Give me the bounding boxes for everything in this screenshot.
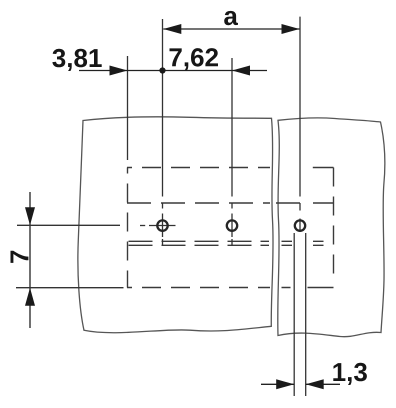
hole H1 bbox=[157, 220, 167, 230]
dimension 7 vertical line bbox=[29, 192, 31, 328]
dimension 1,3 line right bbox=[306, 383, 340, 385]
arrow 7 top bbox=[25, 207, 35, 225]
origin dot bbox=[159, 67, 165, 73]
arrow 7 bottom bbox=[25, 288, 35, 306]
dashed box right edge bbox=[333, 168, 335, 280]
dashed box left edge bbox=[127, 168, 129, 288]
dimension a arrow right bbox=[282, 24, 300, 34]
hole H2 bbox=[227, 220, 237, 230]
dashed box top edge left part bbox=[127, 167, 270, 169]
label 3,81 bbox=[52, 49, 101, 71]
double dashed lines bbox=[129, 241, 334, 245]
extension line 1,3 left bbox=[293, 233, 295, 396]
dimension a line bbox=[163, 28, 299, 30]
extension line hole1 vertical bbox=[162, 19, 164, 246]
dashed box top edge right part bbox=[313, 167, 334, 169]
dashed box bottom edge left part bbox=[127, 287, 270, 289]
dimension 7 extension bottom bbox=[16, 287, 124, 289]
extension line hole3 vertical bbox=[299, 17, 301, 232]
dashed box bottom edge right part bbox=[282, 287, 334, 289]
centerline at hole1 bbox=[140, 225, 176, 227]
extension line box-left vertical bbox=[127, 56, 129, 160]
label 1,3 bbox=[333, 363, 367, 385]
arrow 1,3 right bbox=[306, 379, 324, 389]
inner dashed line bbox=[127, 202, 334, 204]
arrow 1,3 left bbox=[276, 379, 294, 389]
extension line 1,3 right bbox=[305, 233, 307, 396]
label 7 bbox=[11, 251, 29, 263]
PCB body outline right piece bbox=[278, 118, 385, 337]
dimension 3,81 / 7,62 shared line bbox=[79, 70, 267, 72]
dimension a arrow left bbox=[163, 24, 181, 34]
label 7,62 bbox=[170, 48, 219, 70]
hole H3 bbox=[295, 220, 305, 230]
dimension a label bbox=[224, 11, 238, 25]
dimension 1,3 line left bbox=[261, 383, 294, 385]
PCB body outline left piece bbox=[78, 117, 273, 333]
dashed connector outline (hidden contour) bbox=[127, 168, 334, 288]
arrow 7,62 bbox=[232, 66, 250, 76]
arrow 3,81 bbox=[110, 66, 128, 76]
dimension 7 extension top bbox=[17, 224, 120, 226]
extension line hole2 vertical bbox=[231, 58, 233, 246]
